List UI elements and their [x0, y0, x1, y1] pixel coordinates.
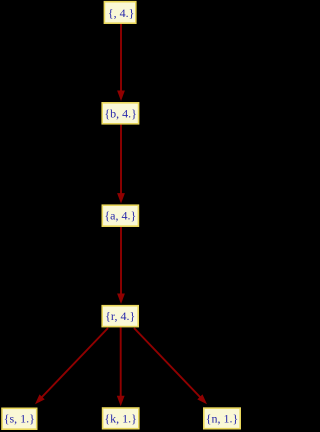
- wire edge r to k: [120, 327, 122, 398]
- svg-text:{b, 4.}: {b, 4.}: [104, 107, 137, 121]
- wire edge root to b: [120, 24, 122, 93]
- node b {b, 4.}: [102, 103, 138, 124]
- node n {n, 1.}: [204, 408, 240, 429]
- svg-text:{, 4.}: {, 4.}: [108, 6, 135, 20]
- svg-text:{a, 4.}: {a, 4.}: [104, 209, 136, 223]
- node r {r, 4.}: [102, 306, 138, 327]
- arrowhead into b: [117, 91, 125, 102]
- wire edge a to r: [120, 227, 122, 296]
- node root {, 4.}: [104, 2, 135, 24]
- wire edge r to s: [40, 328, 108, 399]
- svg-text:{s, 1.}: {s, 1.}: [4, 412, 35, 426]
- svg-text:{r, 4.}: {r, 4.}: [105, 309, 135, 323]
- wire edge r to n: [134, 328, 202, 399]
- node s {s, 1.}: [2, 408, 37, 429]
- arrowhead into s: [35, 394, 45, 404]
- node k {k, 1.}: [103, 408, 139, 429]
- svg-text:{n, 1.}: {n, 1.}: [206, 411, 239, 425]
- arrowhead into a: [117, 193, 125, 204]
- svg-text:{k, 1.}: {k, 1.}: [104, 411, 137, 425]
- node a {a, 4.}: [102, 205, 138, 226]
- arrowhead into r: [117, 294, 125, 305]
- arrowhead into n: [197, 394, 207, 404]
- arrowhead into k: [117, 396, 125, 407]
- wire edge b to a: [120, 125, 122, 196]
